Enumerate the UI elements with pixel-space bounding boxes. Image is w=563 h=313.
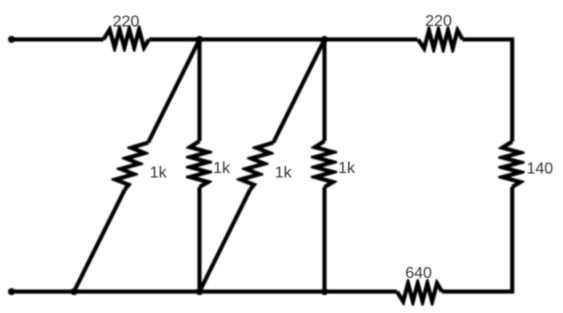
junction bottom diag1 — [71, 288, 78, 295]
resistor R6 1k vertical-right — [311, 139, 337, 188]
wire node-B vertical lower — [322, 187, 326, 292]
wire node-A vertical lower — [197, 187, 201, 292]
wire diagonal lead upper R7 — [146, 38, 201, 143]
resistor R4 640 bottom — [395, 279, 444, 305]
resistor R8 1k diagonal-right — [237, 141, 274, 191]
resistor R1 220 top-left — [102, 25, 151, 51]
svg-text:1k: 1k — [150, 165, 168, 182]
wire node-A vertical upper — [197, 39, 201, 141]
svg-text:220: 220 — [425, 13, 452, 30]
terminal top-left — [8, 36, 15, 43]
resistor R7 1k diagonal-left — [111, 141, 149, 191]
wire top-middle — [149, 37, 418, 41]
junction bottom node B — [321, 288, 328, 295]
wire diagonal lead lower R7 — [72, 189, 126, 293]
wire diagonal lead upper R8 — [272, 38, 327, 143]
wire node-B vertical upper — [322, 39, 326, 141]
svg-text:140: 140 — [527, 161, 554, 178]
wire bottom — [12, 290, 398, 294]
junction bottom node A — [196, 288, 203, 295]
wire top-right corner — [463, 37, 515, 141]
resistor R2 220 top-right — [416, 26, 464, 52]
wire right-lower corner — [442, 187, 514, 294]
wire top-left — [12, 37, 104, 41]
resistor R3 140 right — [498, 140, 524, 189]
node A junction top — [196, 36, 203, 43]
svg-text:640: 640 — [405, 265, 432, 282]
node B junction top — [321, 36, 328, 43]
svg-text:1k: 1k — [338, 160, 356, 177]
resistor R5 1k vertical-left — [186, 139, 212, 188]
wire diagonal lead lower R8 — [198, 189, 252, 293]
terminal bottom-left — [8, 288, 15, 295]
svg-text:1k: 1k — [213, 160, 231, 177]
svg-text:1k: 1k — [275, 165, 293, 182]
svg-text:220: 220 — [113, 14, 140, 31]
